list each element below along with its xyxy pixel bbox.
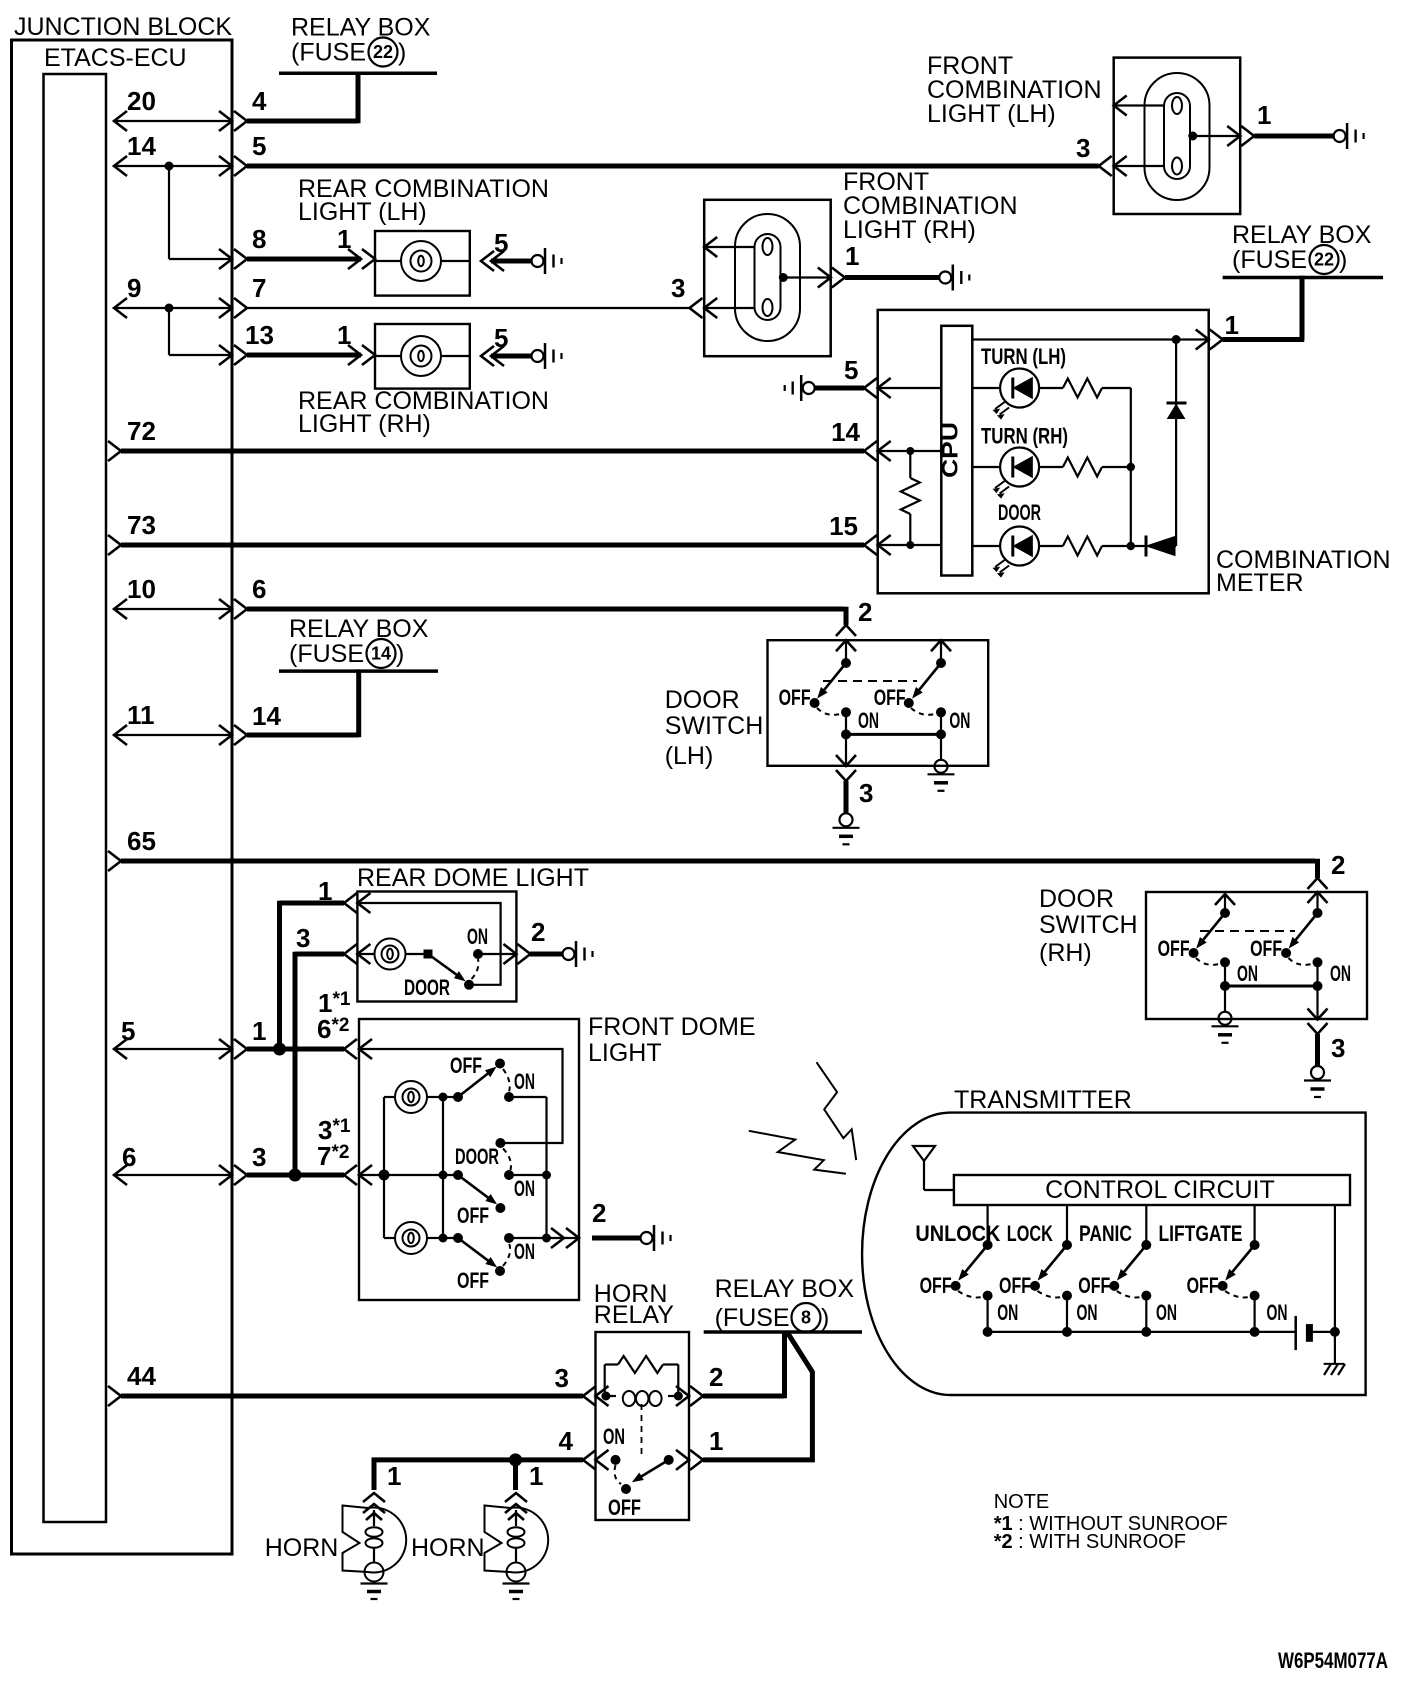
svg-text:RELAY BOX: RELAY BOX	[1232, 221, 1372, 249]
FDL top dashed arc	[503, 1069, 510, 1092]
wire 44 (ETACS-ECU pin 44)	[121, 1394, 583, 1399]
DS-LH pin3 arrows	[836, 755, 856, 766]
FDL bottom bulb	[395, 1222, 427, 1254]
rear dome ON contact	[473, 949, 483, 959]
horn relay blade	[638, 1460, 669, 1478]
radio wave bolt 1	[817, 1062, 857, 1160]
wire 5 (ETACS-ECU pin 5)	[114, 1048, 232, 1050]
DS-LH right blade	[917, 663, 941, 693]
ground FDL	[641, 1232, 653, 1244]
DS-RH right ON contact	[1313, 957, 1323, 967]
LED door	[1000, 527, 1039, 566]
svg-text:LIGHT: LIGHT	[588, 1039, 662, 1067]
meter pin 14 arrows	[864, 441, 877, 461]
wire 65 (ETACS-ECU pin 65)	[121, 859, 1315, 864]
svg-text:LIGHT (LH): LIGHT (LH)	[927, 100, 1056, 128]
rear dome switch blade	[428, 954, 460, 977]
svg-text:RELAY BOX: RELAY BOX	[289, 615, 429, 643]
node row 5/1	[273, 1043, 286, 1056]
DS-RH right stem	[1316, 892, 1318, 913]
DS-RH pin3 wire thick	[1315, 1034, 1320, 1066]
LIFTGATE dashed arc	[1225, 1291, 1255, 1297]
DS-RH left arrows	[1215, 894, 1235, 905]
diode D1 vertical	[1167, 402, 1187, 405]
svg-text:DOOR: DOOR	[665, 686, 740, 714]
svg-text:3: 3	[859, 778, 873, 808]
svg-text:ON: ON	[514, 1069, 535, 1094]
wire 7 to front combination light RH	[247, 307, 690, 309]
wire 3 to front dome light	[247, 1173, 344, 1178]
svg-text:73: 73	[127, 510, 156, 540]
horn relay pin4 arrows	[583, 1450, 596, 1470]
svg-text:15: 15	[829, 511, 858, 541]
svg-text:LIFTGATE: LIFTGATE	[1159, 1221, 1243, 1246]
svg-text:): )	[398, 39, 406, 67]
LIFTGATE wire to bus	[1253, 1296, 1255, 1332]
meter pin5 inner wire	[878, 387, 942, 389]
UNLOCK bus node	[983, 1327, 993, 1337]
svg-text:ON: ON	[514, 1176, 535, 1201]
wire to rear combination light RH	[247, 353, 361, 358]
svg-text:65: 65	[127, 826, 156, 856]
horn relay box	[596, 1332, 690, 1520]
front combination light RH box	[704, 200, 831, 356]
svg-text:HORN: HORN	[265, 1534, 339, 1562]
LIFTGATE switch blade	[1230, 1245, 1255, 1275]
DS-LH right dashed arc	[911, 708, 941, 715]
svg-text:2: 2	[1331, 850, 1345, 880]
svg-text:14: 14	[127, 131, 156, 161]
svg-text:OFF: OFF	[457, 1203, 489, 1228]
FCL-RH filament loops	[763, 238, 773, 255]
FDL door pivot	[453, 1170, 463, 1180]
svg-text:2: 2	[858, 597, 872, 627]
svg-text:(FUSE: (FUSE	[1232, 246, 1307, 274]
horn relay resistor	[604, 1365, 606, 1397]
wire 6b (ETACS-ECU pin 6)	[114, 1174, 232, 1176]
svg-text:3: 3	[671, 273, 685, 303]
svg-text:*2 : WITH SUNROOF: *2 : WITH SUNROOF	[994, 1531, 1186, 1553]
svg-text:JUNCTION BLOCK: JUNCTION BLOCK	[14, 13, 232, 41]
svg-text:DOOR: DOOR	[998, 500, 1041, 525]
wire fuse22 to combination meter pin 1	[1300, 276, 1305, 340]
horn 2	[510, 1508, 548, 1573]
svg-text:FRONT DOME: FRONT DOME	[588, 1013, 756, 1041]
svg-text:1: 1	[252, 1016, 266, 1046]
bulb rear combination LH	[401, 241, 441, 281]
DS-RH dashed link	[1200, 930, 1295, 932]
DS-LH left top node	[841, 658, 851, 668]
svg-text:3: 3	[1076, 133, 1090, 163]
horn relay plunger	[641, 1404, 643, 1458]
DS-RH bar	[1225, 985, 1318, 988]
LIFTGATE bus node	[1250, 1327, 1260, 1337]
front combination light LH box	[1114, 58, 1241, 214]
PANIC bus node	[1141, 1327, 1151, 1337]
wire 4 to relay box	[247, 119, 358, 124]
FCL-LH lamp outer	[1145, 73, 1210, 200]
svg-text:OFF: OFF	[457, 1268, 489, 1293]
wire 8 (ETACS-ECU pin 8)	[169, 258, 232, 260]
FDL top ON wire	[509, 1096, 547, 1098]
FDL bottom tip contact	[495, 1266, 505, 1276]
FCL-LH filament loops	[1172, 97, 1182, 114]
FDL pin1 path	[359, 1049, 563, 1143]
svg-text:HORN: HORN	[411, 1534, 485, 1562]
FCL-LH pin 1 node	[1188, 132, 1197, 141]
svg-text:ON: ON	[949, 708, 970, 733]
FCL-LH upper left wire	[1114, 104, 1164, 106]
rear dome pin2 wire	[478, 953, 516, 955]
LOCK dashed arc	[1038, 1291, 1068, 1297]
radio wave bolt 2	[749, 1131, 846, 1174]
svg-text:72: 72	[127, 416, 156, 446]
FCL-RH ground wire	[845, 275, 939, 280]
svg-text:3: 3	[555, 1363, 569, 1393]
node row 6/3	[289, 1169, 302, 1182]
svg-text:OFF: OFF	[608, 1495, 641, 1520]
svg-text:RELAY: RELAY	[594, 1301, 674, 1329]
meter pin5 ground wire	[815, 386, 864, 391]
rear dome dashed arc	[472, 959, 479, 979]
svg-text:1: 1	[1225, 310, 1239, 340]
meter pin14 inner wire	[878, 450, 942, 452]
DS-RH right OFF contact	[1281, 948, 1291, 958]
UNLOCK OFF contact	[951, 1281, 961, 1291]
meter right bus	[1175, 340, 1177, 547]
horn relay dashed arc	[615, 1465, 621, 1484]
rear dome switch pivot	[424, 950, 433, 959]
FCL-LH lamp inner	[1164, 93, 1190, 179]
svg-text:(RH): (RH)	[1039, 939, 1092, 967]
DS-LH bar	[846, 733, 941, 736]
FDL door top contact	[495, 1138, 505, 1148]
door switch LH pin2 arrows	[836, 625, 856, 636]
DS-LH right OFF contact	[904, 698, 914, 708]
node horns	[509, 1453, 522, 1466]
RCL-LH ground wire	[491, 259, 531, 264]
svg-text:7: 7	[252, 273, 266, 303]
FDL bottom blade	[458, 1238, 491, 1263]
transmitter bus wire	[988, 1331, 1296, 1333]
DS-RH left OFF contact	[1189, 948, 1199, 958]
wire 6 to door switch LH	[247, 607, 844, 612]
wire to rear combination light LH	[247, 257, 361, 262]
svg-text:4: 4	[559, 1426, 574, 1456]
svg-text:OFF: OFF	[920, 1273, 952, 1298]
LED turn RH	[1000, 448, 1039, 487]
wire horn relay pin2 to fuse8	[703, 1394, 785, 1399]
junction node on wire 14	[165, 162, 174, 171]
FDL pin3 arrows	[344, 1165, 357, 1185]
transmitter right wire	[1334, 1205, 1336, 1332]
DS-LH pin3 wire thick	[844, 781, 849, 813]
FDL top blade	[458, 1071, 491, 1097]
rear dome ground wire	[530, 952, 562, 957]
svg-text:5: 5	[121, 1016, 135, 1046]
svg-text:ON: ON	[1237, 961, 1258, 986]
FCL-RH pin 1 node	[779, 273, 788, 282]
control circuit box	[954, 1175, 1350, 1205]
DS-RH pin3 ground	[1311, 1066, 1324, 1079]
battery output node	[1330, 1327, 1340, 1337]
UNLOCK switch blade	[963, 1245, 988, 1275]
FDL pin2 wire	[509, 1237, 579, 1239]
branch wire pin9 to pin 13 row	[168, 308, 170, 355]
svg-text:): )	[396, 640, 404, 668]
svg-text:SWITCH: SWITCH	[665, 712, 764, 740]
DS-RH left top node	[1220, 908, 1230, 918]
wire turn LH to bus	[1102, 387, 1131, 389]
bulb rear combination RH	[401, 336, 441, 376]
FDL top bulb	[395, 1081, 427, 1113]
PANIC wire to bus	[1145, 1296, 1147, 1332]
LIFTGATE switch top node	[1250, 1240, 1260, 1250]
svg-text:ETACS-ECU: ETACS-ECU	[44, 44, 187, 72]
svg-text:): )	[821, 1304, 829, 1332]
DS-LH left stem	[845, 640, 847, 663]
DS-LH left wire to bar	[845, 712, 847, 734]
wire horns feed	[372, 1457, 583, 1462]
FDL door ON contact	[504, 1170, 514, 1180]
wire 10 (ETACS-ECU pin 10)	[114, 608, 232, 610]
DS-RH left blade	[1201, 913, 1225, 943]
UNLOCK ON contact	[983, 1291, 993, 1301]
svg-text:ON: ON	[1267, 1300, 1288, 1325]
DS-RH pin3 arrows	[1308, 1009, 1328, 1020]
wire fuse8 to horn relay pin1	[703, 1334, 812, 1460]
FDL ground wire	[592, 1236, 641, 1241]
DS-LH right top node	[936, 658, 946, 668]
svg-text:44: 44	[127, 1361, 156, 1391]
svg-text:22: 22	[1314, 250, 1334, 270]
branch wire pin14 to pin 8 row	[168, 166, 170, 259]
CPU box	[941, 326, 972, 576]
svg-text:OFF: OFF	[874, 685, 906, 710]
svg-text:1: 1	[529, 1461, 543, 1491]
rear dome DOOR contact	[464, 980, 474, 990]
svg-text:8: 8	[801, 1308, 811, 1328]
svg-text:ON: ON	[1330, 961, 1351, 986]
wire horn2 drop	[513, 1460, 518, 1490]
horn relay coil	[601, 1392, 610, 1401]
front dome light box	[359, 1019, 579, 1300]
svg-text:ON: ON	[467, 924, 488, 949]
junction node on wire 9	[165, 304, 174, 313]
door switch LH box	[768, 640, 989, 766]
FCL-RH upper left wire	[704, 246, 754, 248]
FCL-LH ground wire	[1254, 134, 1333, 139]
RCL-RH pin 5 arrows	[481, 346, 494, 366]
svg-text:DOOR: DOOR	[1039, 885, 1114, 913]
horn relay pin1 arrows	[676, 1450, 689, 1470]
svg-text:(FUSE: (FUSE	[291, 39, 366, 67]
svg-text:METER: METER	[1216, 569, 1304, 597]
svg-text:OFF: OFF	[1078, 1273, 1110, 1298]
LOCK ON contact	[1062, 1291, 1072, 1301]
DS-RH pin2 arrows	[1308, 878, 1328, 889]
FDL row3 wire	[359, 1174, 458, 1176]
svg-text:22: 22	[373, 42, 393, 62]
svg-text:OFF: OFF	[1250, 936, 1282, 961]
wire rear dome pin1 riser	[277, 901, 282, 1049]
FDL bottom pivot	[453, 1233, 463, 1243]
wire 14 (ETACS-ECU pin 14)	[114, 165, 232, 167]
svg-text:SWITCH: SWITCH	[1039, 911, 1138, 939]
svg-text:ON: ON	[603, 1424, 625, 1449]
DS-RH left ON contact	[1220, 957, 1230, 967]
LOCK bus node	[1062, 1327, 1072, 1337]
svg-text:1: 1	[709, 1426, 723, 1456]
svg-text:OFF: OFF	[999, 1273, 1031, 1298]
FDL left bus	[383, 1097, 385, 1238]
svg-text:9: 9	[127, 273, 141, 303]
PANIC dashed arc	[1117, 1291, 1147, 1297]
svg-text:DOOR: DOOR	[404, 975, 450, 1000]
svg-text:3: 3	[1331, 1033, 1345, 1063]
PANIC ON contact	[1141, 1291, 1151, 1301]
resistor turn LH	[1063, 379, 1102, 398]
svg-text:5: 5	[252, 131, 266, 161]
wire 13 (ETACS-ECU pin 13)	[169, 354, 232, 356]
battery	[1294, 1316, 1297, 1350]
svg-text:1: 1	[845, 241, 859, 271]
FDL bottom ON contact	[504, 1233, 514, 1243]
wire turn RH node	[1102, 466, 1131, 468]
transmitter outline	[862, 1113, 1366, 1395]
FCL-RH pin3 inner wire	[704, 307, 754, 309]
svg-text:13: 13	[245, 320, 274, 350]
junction block box	[12, 40, 233, 1554]
svg-text:OFF: OFF	[450, 1053, 482, 1078]
FCL-RH pin 1 wire	[783, 276, 831, 278]
svg-text:14: 14	[252, 701, 281, 731]
svg-text:14: 14	[831, 417, 860, 447]
svg-text:): )	[1339, 246, 1347, 274]
antenna	[913, 1146, 935, 1161]
svg-text:ON: ON	[1077, 1300, 1098, 1325]
DS-RH left stem	[1224, 894, 1226, 913]
DS-RH right top node	[1313, 908, 1323, 918]
svg-text:REAR DOME LIGHT: REAR DOME LIGHT	[357, 864, 589, 892]
svg-text:5: 5	[844, 355, 858, 385]
DS-RH pin3 wire	[1316, 962, 1318, 1019]
meter resistor bottom node	[906, 541, 914, 549]
svg-text:CONTROL CIRCUIT: CONTROL CIRCUIT	[1045, 1176, 1275, 1204]
horn relay pin2 arrows	[676, 1386, 689, 1406]
LED turn LH	[1000, 369, 1039, 408]
DS-LH left ON contact	[841, 707, 851, 717]
svg-text:3: 3	[252, 1142, 266, 1172]
svg-text:20: 20	[127, 86, 156, 116]
DS-LH right ground	[935, 760, 948, 773]
PANIC switch stem	[1145, 1205, 1147, 1245]
svg-text:2: 2	[531, 917, 545, 947]
FDL top bulb to pivot	[443, 1096, 458, 1098]
wire 9 (ETACS-ECU pin 9)	[114, 307, 232, 309]
DS-RH left dashed arc	[1196, 958, 1225, 965]
svg-text:5: 5	[494, 323, 508, 353]
DS-LH left dashed arc	[817, 708, 846, 715]
LIFTGATE ON contact	[1250, 1291, 1260, 1301]
meter pin 15 arrows	[864, 535, 877, 555]
FDL door dashed arc	[503, 1149, 511, 1171]
wire 1 to front dome light	[247, 1047, 344, 1052]
DS-LH right stem	[940, 640, 942, 663]
svg-text:5: 5	[494, 228, 508, 258]
meter pin5 arrows	[864, 378, 877, 398]
wire rear dome pin3 riser	[293, 952, 298, 1175]
rear dome pin3 arrows	[344, 944, 357, 964]
svg-text:14: 14	[371, 644, 391, 664]
svg-text:PANIC: PANIC	[1079, 1221, 1132, 1246]
meter pin1 node	[1172, 335, 1181, 344]
DS-LH pin3 ground	[840, 813, 853, 826]
FCL-LH pin 1 wire	[1193, 135, 1240, 137]
horn 1	[368, 1508, 406, 1573]
DS-RH left wire to ground	[1224, 986, 1226, 1012]
FDL door ON wire	[509, 1174, 547, 1176]
LOCK switch blade	[1042, 1245, 1067, 1275]
RCL-RH ground wire	[491, 354, 531, 359]
wire 73 (ETACS-ECU pin 73)	[121, 543, 864, 548]
svg-text:1: 1	[1257, 100, 1271, 130]
wire 5 to front combination light LH	[247, 164, 1099, 169]
rear dome pin1 arrows	[344, 893, 357, 913]
wire door node	[1102, 545, 1131, 547]
svg-text:LIGHT (RH): LIGHT (RH)	[843, 216, 976, 244]
UNLOCK switch stem	[986, 1205, 988, 1245]
svg-text:10: 10	[127, 574, 156, 604]
diode D2 horizontal	[1131, 545, 1146, 547]
DS-LH left OFF contact	[810, 698, 820, 708]
svg-text:6: 6	[122, 1142, 136, 1172]
svg-text:1: 1	[387, 1461, 401, 1491]
svg-text:2: 2	[709, 1362, 723, 1392]
wire 11 (ETACS-ECU pin 11)	[114, 734, 232, 736]
svg-text:(FUSE: (FUSE	[715, 1304, 790, 1332]
meter pin1 wire	[972, 338, 1208, 340]
ETACS-ECU box	[44, 74, 107, 1522]
rear dome light box	[357, 892, 516, 1002]
chassis ground	[1324, 1363, 1345, 1365]
DS-RH left ground	[1219, 1012, 1232, 1025]
FDL pin1 arrows	[344, 1039, 357, 1059]
svg-text:RELAY BOX: RELAY BOX	[715, 1275, 855, 1303]
svg-text:TRANSMITTER: TRANSMITTER	[954, 1086, 1132, 1114]
FDL top OFF contact	[495, 1059, 505, 1069]
LIFTGATE OFF contact	[1218, 1281, 1228, 1291]
svg-text:ON: ON	[997, 1300, 1018, 1325]
FDL bottom to pivot	[443, 1237, 458, 1239]
LOCK switch stem	[1066, 1205, 1068, 1245]
svg-text:W6P54M077A: W6P54M077A	[1278, 1648, 1388, 1673]
svg-text:TURN (LH): TURN (LH)	[981, 344, 1066, 369]
svg-text:OFF: OFF	[1158, 936, 1190, 961]
FCL-RH lamp inner	[755, 234, 781, 320]
DS-LH dashed link	[823, 680, 917, 682]
horn relay ON contact	[611, 1455, 621, 1465]
resistor door	[1063, 537, 1102, 556]
rear dome pin1 path	[357, 903, 500, 985]
combination meter box	[878, 310, 1209, 593]
DS-RH right blade	[1293, 913, 1317, 943]
svg-text:11: 11	[127, 700, 155, 730]
DS-LH right ON contact	[936, 707, 946, 717]
DS-RH left wire to bar	[1224, 962, 1226, 986]
FDL bottom dashed arc	[503, 1243, 510, 1266]
ground RCL-RH	[532, 350, 544, 362]
